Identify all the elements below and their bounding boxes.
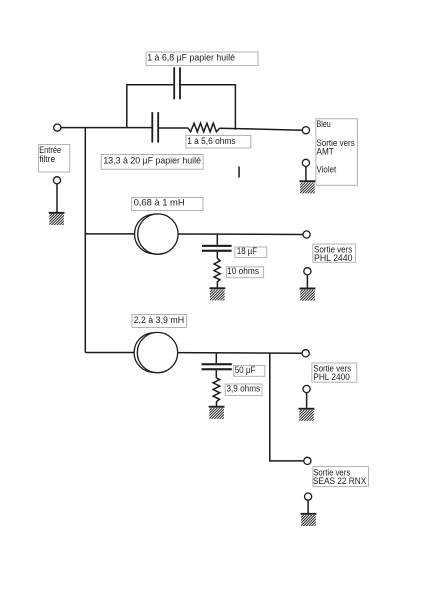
svg-text:SEAS 22 RNX: SEAS 22 RNX — [313, 476, 367, 487]
svg-text:50 µF: 50 µF — [235, 365, 256, 375]
svg-text:13,3 à 20 µF papier huilé: 13,3 à 20 µF papier huilé — [103, 156, 201, 166]
svg-text:0,68 à 1 mH: 0,68 à 1 mH — [134, 198, 185, 208]
svg-text:AMT: AMT — [317, 146, 334, 157]
svg-text:1 à 5,6 ohms: 1 à 5,6 ohms — [187, 136, 236, 146]
svg-text:filtre: filtre — [39, 154, 55, 164]
svg-text:Violet: Violet — [317, 165, 337, 176]
svg-text:10 ohms: 10 ohms — [227, 266, 260, 276]
svg-text:2,2 à 3,9 mH: 2,2 à 3,9 mH — [134, 315, 185, 325]
svg-text:18 µF: 18 µF — [237, 246, 258, 256]
svg-text:PHL 2440: PHL 2440 — [314, 253, 353, 264]
svg-text:3,9 ohms: 3,9 ohms — [227, 383, 261, 393]
svg-text:Bleu: Bleu — [317, 119, 331, 130]
svg-text:PHL 2400: PHL 2400 — [313, 372, 350, 383]
svg-text:1 à 6,8 µF papier huilé: 1 à 6,8 µF papier huilé — [147, 52, 235, 62]
